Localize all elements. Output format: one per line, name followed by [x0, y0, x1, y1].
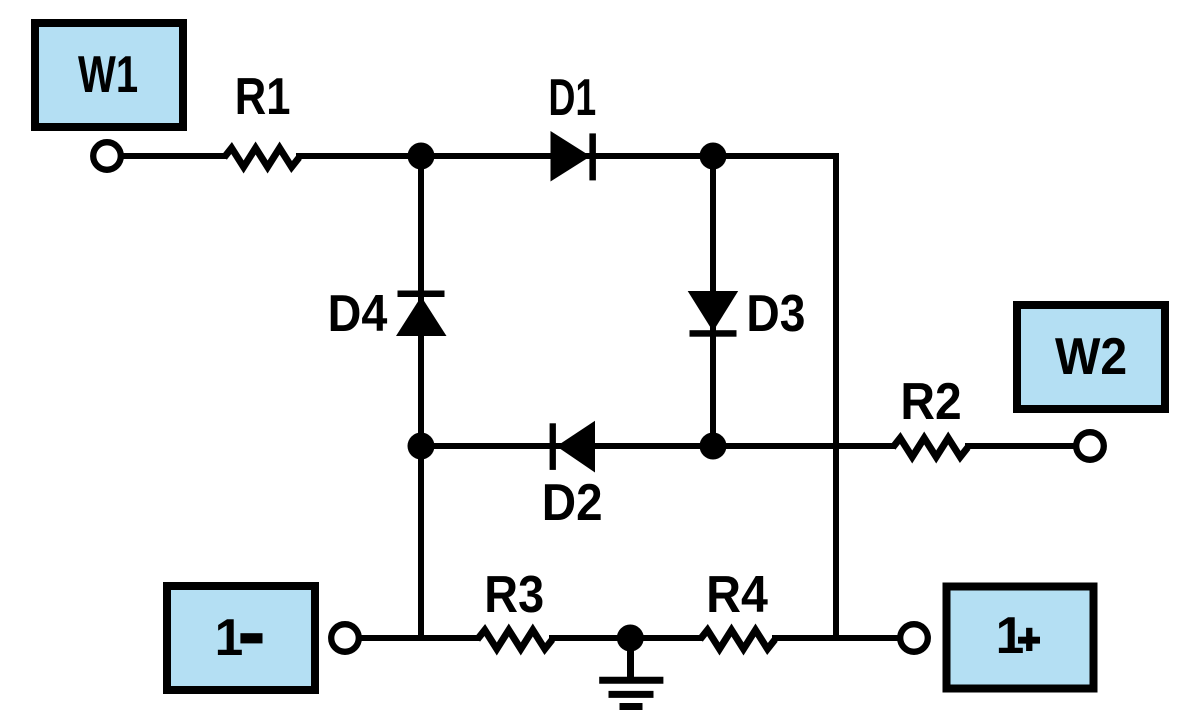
svg-text:W2: W2 [1055, 327, 1127, 385]
svg-text:R2: R2 [900, 372, 961, 430]
svg-text:W1: W1 [78, 45, 138, 103]
svg-text:R3: R3 [484, 565, 544, 623]
svg-text:R1: R1 [235, 67, 291, 125]
svg-text:1: 1 [996, 606, 1025, 664]
svg-text:D2: D2 [542, 473, 603, 531]
svg-text:D4: D4 [328, 284, 388, 342]
svg-text:R4: R4 [706, 565, 768, 623]
svg-text:1: 1 [215, 608, 244, 666]
svg-text:D1: D1 [548, 68, 596, 126]
svg-text:D3: D3 [746, 284, 805, 342]
